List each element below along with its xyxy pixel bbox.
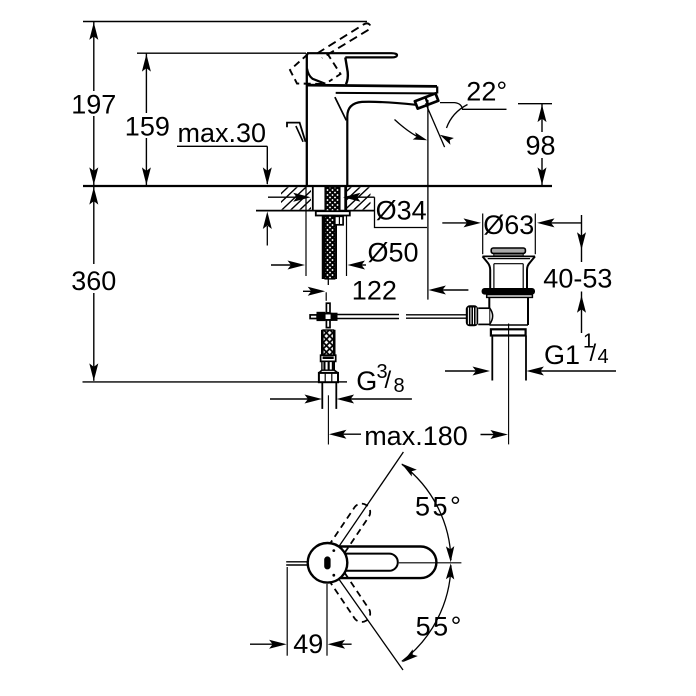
svg-text:/: / bbox=[590, 340, 597, 367]
svg-text:22°: 22° bbox=[466, 76, 507, 106]
svg-text:4: 4 bbox=[598, 346, 609, 368]
svg-text:98: 98 bbox=[526, 131, 556, 161]
svg-text:max.30: max.30 bbox=[178, 118, 267, 148]
svg-text:Ø34: Ø34 bbox=[376, 196, 427, 226]
svg-text:Ø63: Ø63 bbox=[483, 210, 534, 240]
svg-text:49: 49 bbox=[293, 629, 323, 659]
svg-text:40-53: 40-53 bbox=[543, 264, 612, 294]
svg-text:G: G bbox=[356, 366, 377, 396]
svg-text:360: 360 bbox=[71, 266, 116, 296]
svg-text:/: / bbox=[385, 367, 392, 394]
svg-text:122: 122 bbox=[352, 275, 397, 305]
svg-text:G1: G1 bbox=[544, 340, 580, 370]
svg-text:55°: 55° bbox=[415, 492, 463, 522]
svg-text:197: 197 bbox=[71, 89, 116, 119]
svg-text:8: 8 bbox=[394, 375, 405, 397]
svg-text:max.180: max.180 bbox=[364, 421, 468, 451]
svg-text:Ø50: Ø50 bbox=[368, 238, 419, 268]
svg-text:55°: 55° bbox=[416, 611, 464, 641]
svg-text:159: 159 bbox=[125, 112, 170, 142]
